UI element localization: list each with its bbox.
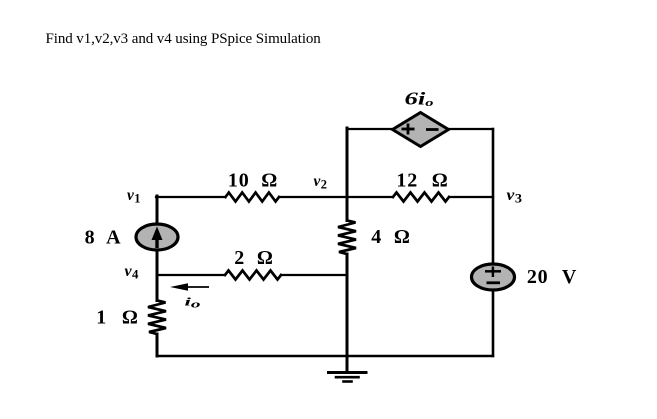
wire bottom rail [157,355,493,357]
svg-text:v3: v3 [507,187,523,206]
dependent source E1 6io diamond [393,113,449,147]
wire 1ohm to bottom rail [156,334,159,356]
svg-text:12 Ω: 12 Ω [396,170,448,192]
wire diamond to right vertical [448,128,493,130]
resistor R 1ohm [148,301,166,335]
resistor R 10ohm [226,193,280,202]
resistor R 12ohm [393,193,449,202]
svg-text:20 V: 20 V [527,266,577,288]
svg-text:1 Ω: 1 Ω [96,307,138,329]
wire 10ohm to node v2 [279,196,347,198]
wire middle vertical below 4ohm to bottom rail [346,254,349,357]
svg-text:4 Ω: 4 Ω [371,226,410,248]
svg-text:8 A: 8 A [85,227,122,249]
wire left vertical v1 to 8A source [156,196,159,224]
wire node v4 horizontal to 2ohm [157,274,225,276]
svg-text:v4: v4 [125,263,140,282]
resistor R 4ohm [338,221,356,255]
svg-text:v1: v1 [127,187,141,206]
wire 12ohm to node v3 [449,196,493,198]
svg-text:6io: 6io [405,89,435,110]
wire top rail from middle vertical to diamond [347,128,393,130]
resistor R 2ohm [225,271,281,280]
title [46,31,321,48]
svg-text:io: io [185,295,201,311]
wire middle vertical top from diamond corner down to v2 node [346,128,349,221]
wire 8A source to node v4 [156,250,159,276]
svg-text:2 Ω: 2 Ω [234,247,273,269]
voltage source V1 20V [472,264,515,290]
wire node v4 to 1ohm [156,276,159,301]
wire right vertical from top rail through v3 to 20V source [492,129,495,264]
wire 20V source to bottom rail [492,290,495,356]
wire node v2 to 12ohm [347,196,393,198]
ground [346,356,349,372]
arrow io current direction [170,283,209,291]
svg-text:10 Ω: 10 Ω [228,170,278,192]
current source I1 8A [136,224,178,250]
wire 2ohm to middle vertical [281,274,347,276]
svg-text:v2: v2 [314,173,328,192]
wire top-left horizontal v1 to 10ohm [156,196,226,198]
